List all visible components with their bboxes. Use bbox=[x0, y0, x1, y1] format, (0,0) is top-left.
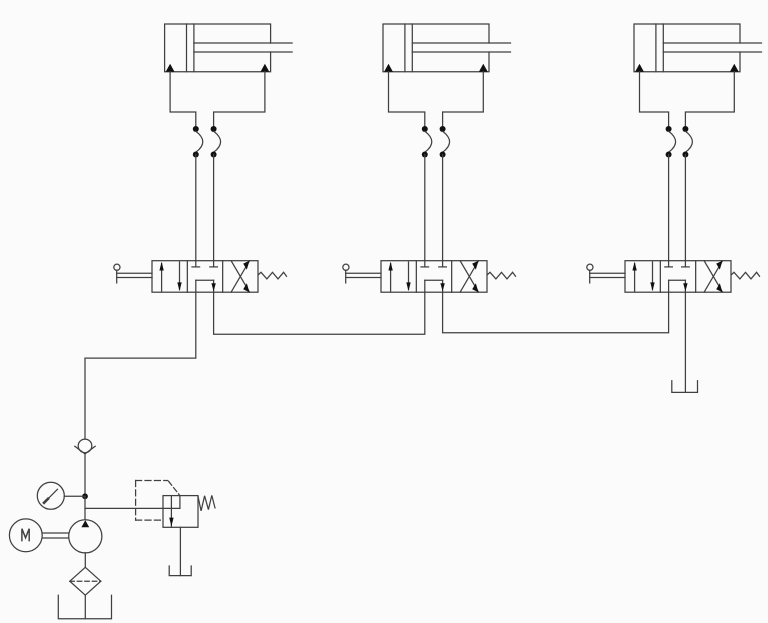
valve V3 center P-T bypass bbox=[669, 280, 688, 292]
wire valve V1 T to valve V2 P bbox=[214, 292, 425, 334]
valve V2 right position cross arrow 1 bbox=[460, 261, 478, 293]
valve V2 left position up arrow bbox=[388, 262, 392, 291]
valve V3 position dividers bbox=[660, 261, 695, 293]
check valve bbox=[75, 439, 95, 454]
wire filter to tank bbox=[84, 595, 86, 619]
valve V2 center blocked port A bbox=[421, 261, 429, 267]
hose A of C3 bbox=[666, 126, 676, 158]
electric motor M1 bbox=[9, 519, 42, 552]
wire hose B to valve V3 port B bbox=[684, 155, 686, 261]
wire branch to relief valve bbox=[85, 507, 180, 509]
hydraulic pump P1 bbox=[69, 520, 102, 553]
relief valve pilot line (dashed) bbox=[169, 481, 180, 495]
hose A of C1 bbox=[193, 126, 203, 158]
relief valve enclosure (dashed) bbox=[136, 481, 168, 521]
relief valve inlet passage bbox=[179, 496, 181, 509]
cylinder C2 right port arrow bbox=[479, 64, 488, 72]
main reservoir tank bbox=[58, 595, 111, 619]
hose B of C1 bbox=[211, 126, 221, 158]
valve V1 position dividers bbox=[187, 261, 222, 293]
valve V3 center blocked port A bbox=[665, 261, 673, 267]
wire check valve to junction bbox=[84, 454, 86, 496]
wire C2 left port to hose A bbox=[389, 72, 425, 129]
valve V2 center P-T bypass bbox=[425, 280, 445, 292]
wire relief valve to tank bbox=[179, 527, 181, 575]
valve V1 lever actuator bbox=[114, 264, 152, 283]
valve V2 center blocked port B bbox=[439, 261, 447, 267]
valve V2 left position down arrow bbox=[406, 262, 410, 291]
hose A of C2 bbox=[422, 126, 432, 158]
cylinder C1 barrel bbox=[165, 24, 271, 72]
tank at valve V3 return bbox=[672, 381, 698, 393]
valve V3 lever actuator bbox=[587, 264, 625, 283]
pressure gauge bbox=[37, 482, 64, 509]
cylinder C2 barrel bbox=[383, 24, 489, 72]
wire pump suction to filter bbox=[84, 553, 86, 567]
relief valve spring bbox=[198, 495, 215, 511]
valve V2 lever actuator bbox=[343, 264, 381, 283]
cylinder C3 left port arrow bbox=[635, 64, 644, 72]
wire C1 left port to hose A bbox=[170, 72, 196, 129]
valve V1 right position cross arrow 2 bbox=[231, 261, 249, 293]
valve V1 left position up arrow bbox=[159, 262, 163, 291]
wire junction to pump bbox=[84, 496, 86, 519]
valve V2 body bbox=[381, 261, 487, 293]
cylinder C3 right port arrow bbox=[730, 64, 739, 72]
hose B of C3 bbox=[682, 126, 692, 158]
wire C2 right port to hose B bbox=[443, 72, 484, 129]
wire hose A to valve V1 port A bbox=[195, 155, 197, 261]
valve V3 left position down arrow bbox=[650, 262, 654, 291]
valve V1 right position cross arrow 1 bbox=[231, 261, 249, 293]
valve V2 right position cross arrow 2 bbox=[460, 261, 478, 293]
cylinder C1 left port arrow bbox=[166, 64, 175, 72]
relief valve flow arrow bbox=[169, 496, 173, 528]
tank at relief valve bbox=[169, 566, 191, 576]
valve V3 left position up arrow bbox=[632, 262, 636, 291]
wire hose B to valve V1 port B bbox=[213, 155, 215, 261]
wire gauge to junction bbox=[64, 495, 85, 497]
valve V1 center blocked port B bbox=[210, 261, 218, 267]
cylinder C3 barrel bbox=[634, 24, 740, 72]
hose B of C2 bbox=[440, 126, 450, 158]
cylinder C1 piston bbox=[187, 24, 194, 72]
valve V1 center blocked port A bbox=[192, 261, 200, 267]
cylinder C1 rod bbox=[194, 43, 292, 52]
cylinder C3 piston bbox=[656, 24, 663, 72]
wire C1 right port to hose B bbox=[214, 72, 265, 129]
valve V1 return spring bbox=[259, 272, 287, 279]
valve V2 return spring bbox=[488, 272, 516, 279]
motor-pump shaft bbox=[43, 533, 69, 538]
wire hose B to valve V2 port B bbox=[442, 155, 444, 261]
valve V3 right position cross arrow 2 bbox=[704, 261, 722, 293]
cylinder C3 rod bbox=[663, 43, 761, 52]
valve V1 body bbox=[152, 261, 258, 293]
valve V1 center P-T bypass bbox=[196, 280, 216, 292]
wire C3 right port to hose B bbox=[685, 72, 734, 129]
wire valve V3 T to tank bbox=[684, 292, 686, 392]
valve V3 center blocked port B bbox=[682, 261, 690, 267]
relief valve body bbox=[163, 496, 198, 528]
valve V3 return spring bbox=[732, 272, 760, 279]
valve V3 right position cross arrow 1 bbox=[704, 261, 722, 293]
cylinder C2 rod bbox=[412, 43, 510, 52]
cylinder C2 left port arrow bbox=[384, 64, 393, 72]
valve V1 left position down arrow bbox=[177, 262, 181, 291]
wire C3 left port to hose A bbox=[640, 72, 669, 129]
cylinder C2 piston bbox=[405, 24, 412, 72]
wire pump supply to valve V1 P bbox=[85, 292, 196, 439]
wire valve V2 T to valve V3 P bbox=[443, 292, 669, 333]
wire hose A to valve V3 port A bbox=[668, 155, 670, 261]
valve V3 body bbox=[625, 261, 731, 293]
suction filter bbox=[70, 567, 101, 595]
junction node at gauge tap bbox=[82, 493, 88, 499]
cylinder C1 right port arrow bbox=[261, 64, 270, 72]
valve V2 position dividers bbox=[416, 261, 451, 293]
wire hose A to valve V2 port A bbox=[424, 155, 426, 261]
